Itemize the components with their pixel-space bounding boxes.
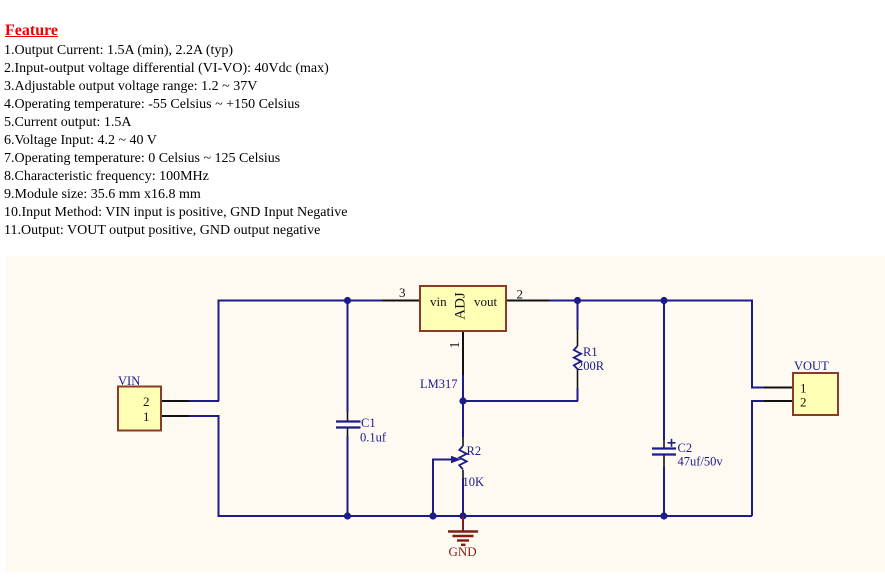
- svg-text:2: 2: [143, 394, 150, 409]
- wire VIN pin 2 stub (blue part): [189, 400, 219, 402]
- resistor R1 zigzag: [574, 346, 581, 369]
- pin J2.1 VOUT: [764, 387, 793, 389]
- svg-text:LM317: LM317: [420, 377, 458, 391]
- pin R1 stubs: [577, 330, 579, 346]
- svg-text:C2: C2: [678, 441, 693, 455]
- svg-text:10K: 10K: [463, 475, 485, 489]
- wire R2 bottom to ground rail: [462, 478, 464, 516]
- wire VIN pin 1 to bottom rail: [189, 416, 752, 516]
- svg-text:1: 1: [143, 409, 150, 424]
- svg-text:ADJ: ADJ: [452, 292, 468, 320]
- wire C2 branch vertical: [663, 301, 665, 441]
- Feature heading: [5, 22, 58, 40]
- svg-text:R2: R2: [467, 444, 482, 458]
- schematic sheet background: [6, 256, 885, 572]
- pin U1.1: [462, 331, 464, 375]
- connector J1 body (VIN): [118, 387, 161, 431]
- wire U1 pin1 to ADJ node: [462, 375, 464, 401]
- feature list: [4, 42, 348, 241]
- wire top rail from VIN branch to U1 pin 3: [219, 301, 383, 402]
- svg-text:2: 2: [517, 287, 524, 302]
- pin U1.2: [506, 300, 549, 302]
- pin R2 stubs: [462, 437, 464, 446]
- regulator U1 LM317 body: [420, 286, 506, 331]
- wire R1 bottom to ADJ horizontal: [577, 388, 579, 401]
- capacitor C1 plates: [336, 422, 361, 428]
- svg-text:GND: GND: [449, 544, 477, 559]
- junction node bottom C2: [660, 512, 667, 519]
- svg-text:VIN: VIN: [118, 374, 140, 388]
- capacitor C2 plates: [652, 449, 676, 455]
- pin J2.2 VOUT: [764, 400, 793, 402]
- pin J1.1 VIN: [161, 415, 189, 417]
- svg-text:1: 1: [448, 342, 463, 349]
- svg-text:C1: C1: [361, 416, 376, 430]
- svg-text:2: 2: [800, 395, 807, 410]
- junction node top R1: [574, 297, 581, 304]
- svg-text:R1: R1: [583, 345, 598, 359]
- connector J2 body (VOUT): [793, 373, 838, 415]
- svg-text:0.1uf: 0.1uf: [360, 431, 387, 445]
- junction node bottom R2/GND: [459, 512, 466, 519]
- potentiometer R2 zigzag: [459, 446, 466, 470]
- svg-text:200R: 200R: [577, 359, 605, 373]
- junction node bottom C1: [344, 512, 351, 519]
- wire U1 pin 2 to VOUT branch top rail: [549, 301, 764, 388]
- svg-text:47uf/50v: 47uf/50v: [678, 455, 724, 469]
- pin C2 stubs: [663, 440, 665, 448]
- ground symbol GND: [448, 516, 478, 545]
- wire VOUT pin 2 down to bottom rail: [752, 401, 764, 516]
- junction node ADJ: [459, 397, 466, 404]
- polarity plus sign C2: [668, 439, 676, 447]
- pin C1 stubs: [347, 412, 349, 421]
- wire ADJ node horizontal to R1 bottom: [463, 400, 578, 402]
- svg-text:VOUT: VOUT: [794, 359, 829, 373]
- wire C1 branch vertical: [347, 301, 349, 413]
- wire R2 top from ADJ node: [462, 401, 464, 437]
- pin U1.3: [382, 300, 420, 302]
- svg-text:3: 3: [399, 285, 406, 300]
- junction node top C2: [660, 297, 667, 304]
- junction node top C1: [344, 297, 351, 304]
- potentiometer R2 wiper arrow: [451, 456, 461, 463]
- junction node bottom wiper: [429, 512, 436, 519]
- svg-text:vout: vout: [474, 294, 498, 309]
- svg-text:1: 1: [800, 381, 807, 396]
- wire R2 wiper to bottom rail: [433, 460, 451, 517]
- wire R1 top from rail: [577, 301, 579, 331]
- svg-text:vin: vin: [430, 294, 447, 309]
- pin J1.2 VIN: [161, 400, 189, 402]
